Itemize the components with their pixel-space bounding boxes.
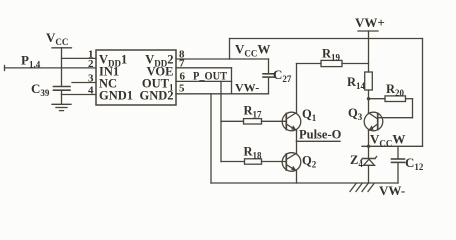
ground VW- hatch [350, 184, 356, 192]
wire R20 to Q3 base [412, 99, 414, 118]
svg-text:Q2: Q2 [302, 154, 317, 170]
capacitor C39 plates [54, 86, 71, 88]
svg-text:VW-: VW- [235, 81, 259, 95]
IC U1 box [96, 50, 176, 105]
svg-text:Pulse-O: Pulse-O [299, 128, 342, 142]
wire vertical pin8 to rail [229, 39, 231, 60]
P_OUT connector box top / pin7 wire [176, 67, 232, 69]
resistor R19 [297, 63, 322, 65]
svg-text:VW+: VW+ [355, 15, 385, 30]
ground [52, 103, 71, 105]
capacitor C27 [268, 59, 270, 74]
svg-text:R18: R18 [244, 145, 263, 161]
wire Pulse-O stub [297, 140, 341, 142]
resistor R18 [221, 161, 245, 163]
svg-text:VCC: VCC [46, 30, 68, 47]
wire GND2 down [210, 94, 212, 183]
P_OUT box right edge [231, 68, 233, 82]
Vcc power bar [52, 47, 72, 49]
node R20 junction [367, 97, 370, 100]
transistor Q2 [282, 153, 301, 172]
wire VW+ vertical [368, 31, 370, 72]
wire Q2 emitter to rail [296, 171, 298, 183]
wire pin1 VDD1 [62, 57, 97, 59]
svg-text:VW-: VW- [379, 183, 405, 198]
P_OUT box bottom / pin6 wire [176, 80, 232, 82]
wire VW- box left edge [231, 81, 233, 93]
node P1.4 tick [4, 66, 6, 71]
svg-text:R14: R14 [347, 75, 366, 91]
wire R14 to Q3 collector [368, 90, 370, 113]
capacitor C12 [397, 146, 399, 159]
svg-text:VCCW: VCCW [370, 132, 405, 149]
wire Q2 collector [296, 141, 298, 153]
svg-text:R17: R17 [244, 104, 263, 120]
wire pin2 IN1 from P1.4 [5, 67, 97, 69]
svg-text:GND2: GND2 [139, 89, 173, 103]
svg-text:R19: R19 [322, 47, 341, 63]
svg-text:GND1: GND1 [99, 89, 133, 103]
svg-text:6: 6 [180, 71, 186, 83]
wire Vcc vertical to C39 [61, 48, 63, 87]
svg-text:VCCW: VCCW [235, 42, 270, 59]
node dot VccW [367, 145, 370, 148]
resistor R17 [221, 120, 244, 122]
svg-text:R20: R20 [386, 82, 405, 98]
wire pin5 GND2 [176, 93, 269, 95]
wire C39 to ground [61, 90, 63, 104]
transistor Q1 [282, 112, 301, 131]
svg-text:4: 4 [88, 85, 94, 97]
wire VccW node line [362, 145, 423, 147]
wire right edge loop [422, 39, 424, 147]
wire pin3 NC stub [72, 82, 96, 84]
svg-text:P1.4: P1.4 [21, 53, 41, 70]
wire VccW top rail [230, 38, 423, 40]
svg-text:Q3: Q3 [348, 106, 363, 122]
wire P_OUT branch down to bases [220, 81, 222, 161]
transistor Q3 [364, 112, 383, 131]
svg-text:C39: C39 [31, 81, 50, 98]
wire pin4 GND1 [62, 94, 97, 96]
svg-text:3: 3 [88, 73, 94, 85]
svg-text:2: 2 [88, 58, 94, 70]
zener Z4 [368, 146, 370, 158]
wire pin8 VDD2 [176, 58, 269, 60]
svg-text:C27: C27 [273, 67, 292, 84]
svg-text:5: 5 [179, 83, 185, 95]
svg-text:Q1: Q1 [302, 107, 317, 123]
svg-text:P_OUT: P_OUT [193, 71, 227, 83]
svg-text:7: 7 [179, 58, 185, 70]
wire bottom rail [211, 182, 398, 184]
svg-text:C12: C12 [405, 155, 424, 172]
wire Q1 emitter to Pulse-O node [296, 131, 298, 142]
wire Q1 collector up [296, 64, 298, 113]
resistor R20 [369, 98, 386, 100]
VW+ power bar [358, 30, 378, 32]
resistor R14 [365, 72, 373, 90]
svg-text:Z4: Z4 [350, 153, 363, 169]
wire Q3 emitter down to VccW node [368, 131, 370, 147]
